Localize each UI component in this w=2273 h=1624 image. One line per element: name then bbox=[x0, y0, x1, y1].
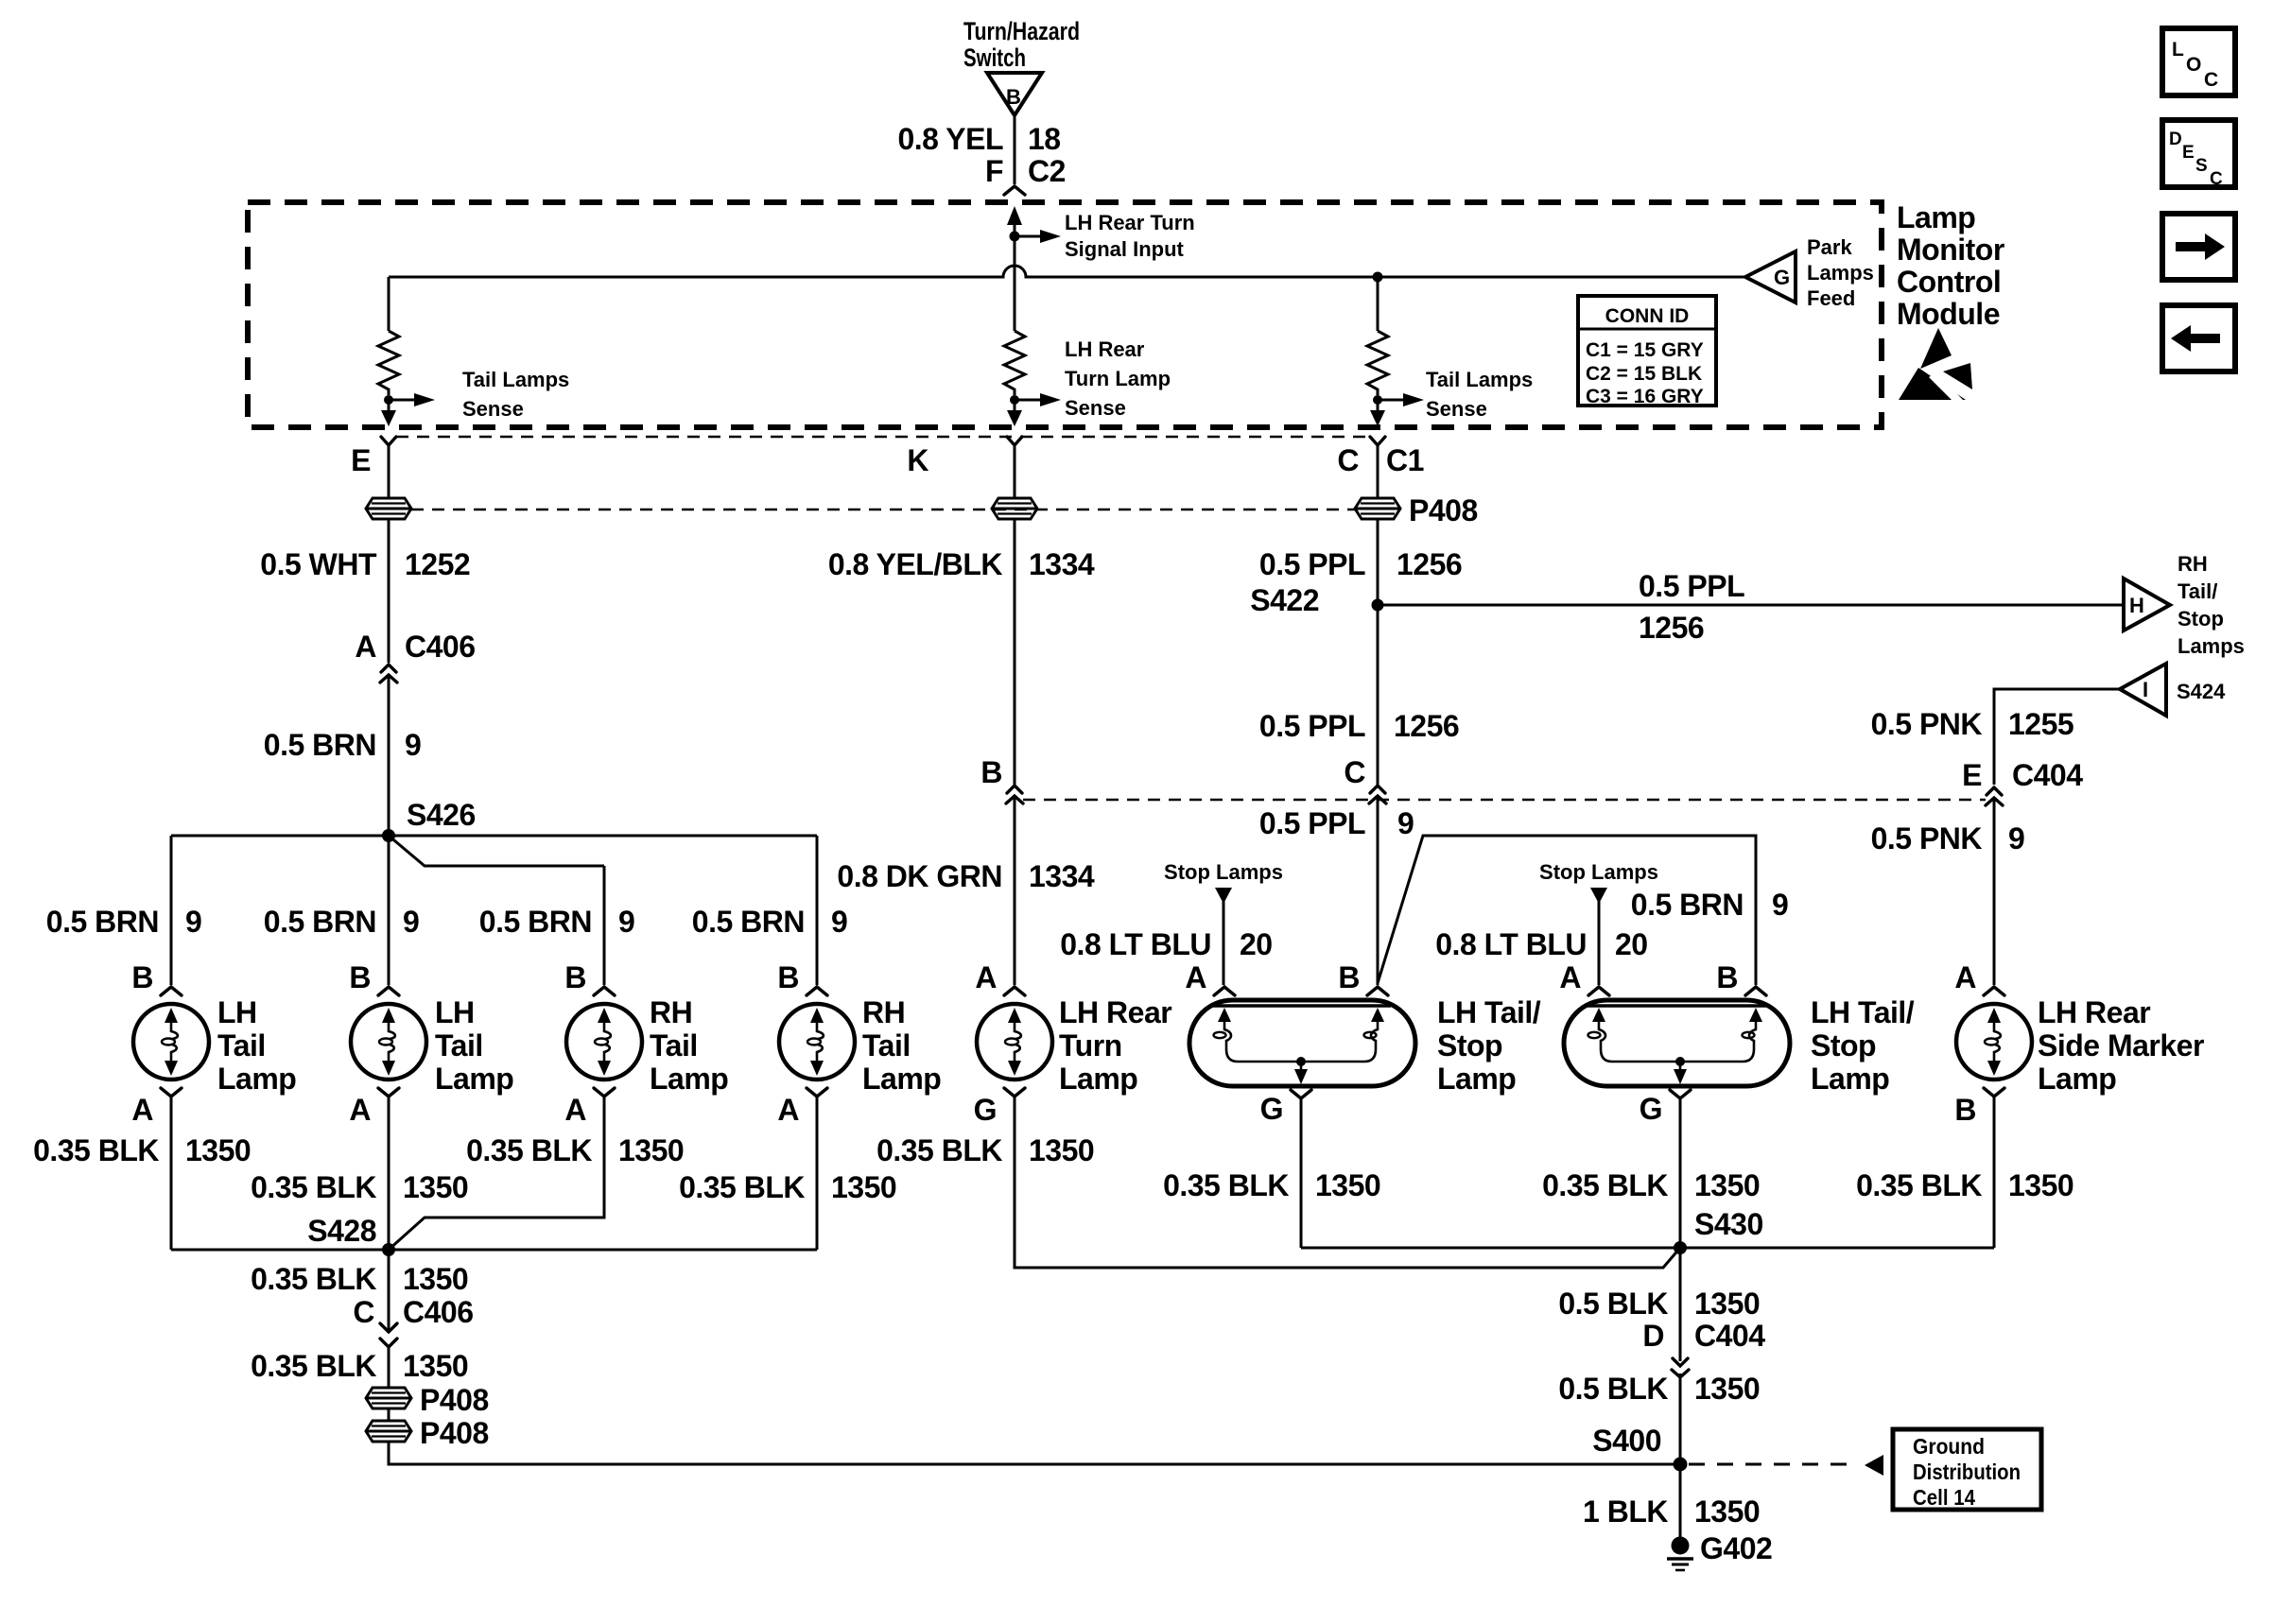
wire lamp3 A to S428 via jog bbox=[389, 1097, 604, 1250]
svg-text:E: E bbox=[2182, 143, 2195, 163]
svg-text:9: 9 bbox=[403, 905, 419, 939]
svg-text:9: 9 bbox=[618, 905, 634, 939]
svg-text:1350: 1350 bbox=[1029, 1133, 1094, 1167]
wire ground run to S400 bbox=[389, 1442, 1680, 1464]
svg-text:Tail/: Tail/ bbox=[2178, 579, 2217, 603]
wire park lamps feed horizontal with hop over K column bbox=[389, 266, 1745, 277]
svg-text:0.5 BRN: 0.5 BRN bbox=[264, 728, 376, 762]
wire LH tail/stop B to B jumper bbox=[1378, 836, 1788, 985]
svg-text:1334: 1334 bbox=[1029, 547, 1095, 581]
wire lamp2 A to S428 bbox=[388, 1097, 390, 1250]
svg-text:D: D bbox=[2169, 130, 2182, 149]
wire S430 bus bbox=[1301, 1247, 1994, 1250]
svg-text:1350: 1350 bbox=[831, 1170, 896, 1204]
wire lamp1 A to S428 bus bbox=[170, 1097, 173, 1250]
svg-text:S400: S400 bbox=[1592, 1424, 1661, 1458]
svg-text:G402: G402 bbox=[1700, 1531, 1772, 1565]
lamp LH Tail Lamp 1 bbox=[133, 995, 296, 1096]
lamp LH Tail Lamp 2 bbox=[351, 995, 513, 1096]
svg-text:Feed: Feed bbox=[1807, 286, 1855, 310]
svg-text:0.5 WHT: 0.5 WHT bbox=[260, 547, 377, 581]
connector triangle H bbox=[2124, 579, 2170, 631]
svg-text:0.5 BLK: 0.5 BLK bbox=[1558, 1372, 1668, 1406]
svg-text:Ground: Ground bbox=[1913, 1434, 1985, 1459]
svg-text:9: 9 bbox=[2008, 821, 2024, 855]
label RH Tail/Stop Lamps bbox=[2178, 552, 2245, 658]
svg-text:Lamps: Lamps bbox=[2178, 634, 2245, 658]
stop lamps feed 1 bbox=[1060, 860, 1283, 985]
svg-text:1350: 1350 bbox=[1694, 1287, 1760, 1321]
svg-text:Sense: Sense bbox=[1065, 396, 1126, 420]
svg-text:A: A bbox=[975, 960, 997, 994]
svg-text:RH: RH bbox=[2178, 552, 2208, 576]
svg-text:S: S bbox=[2195, 156, 2208, 176]
wire 0.35 BLK below S428 bbox=[251, 1250, 468, 1332]
svg-text:1350: 1350 bbox=[1694, 1168, 1760, 1202]
svg-text:C3 = 16 GRY: C3 = 16 GRY bbox=[1586, 386, 1704, 407]
pin F C2 female chevron bbox=[1004, 186, 1025, 195]
label Turn/Hazard Switch bbox=[963, 17, 1080, 72]
CONN ID table bbox=[1578, 296, 1716, 407]
thin dashed line P408 row bbox=[411, 509, 1355, 511]
node S400 bbox=[1674, 1458, 1688, 1472]
label 0.35 BLK 1350 (tail/stop 2) bbox=[1542, 1168, 1760, 1202]
svg-text:0.5 PPL: 0.5 PPL bbox=[1259, 806, 1365, 840]
svg-text:0.8 YEL: 0.8 YEL bbox=[897, 122, 1003, 156]
wire arrow down to module edge (right) bbox=[1370, 400, 1385, 426]
svg-text:0.35 BLK: 0.35 BLK bbox=[1856, 1168, 1982, 1202]
label Park Lamps Feed bbox=[1807, 235, 1874, 310]
label 0.35 BLK 1350 (turn lamp) bbox=[876, 1133, 1094, 1167]
svg-text:A: A bbox=[349, 1093, 371, 1127]
wire 0.5 PPL 1256 to RH tail/stop lamps bbox=[1378, 569, 2123, 645]
pin A/G/B labels row below lamps bbox=[131, 1092, 1976, 1127]
svg-text:S426: S426 bbox=[407, 798, 476, 832]
svg-text:Stop Lamps: Stop Lamps bbox=[1164, 860, 1283, 884]
svg-text:LH: LH bbox=[217, 995, 257, 1029]
wire arrow down to module edge (left) bbox=[381, 400, 396, 426]
svg-text:0.5 PPL: 0.5 PPL bbox=[1259, 709, 1365, 743]
node S430 bbox=[1674, 1241, 1687, 1254]
svg-text:0.35 BLK: 0.35 BLK bbox=[251, 1349, 376, 1383]
svg-text:1256: 1256 bbox=[1639, 611, 1704, 645]
svg-text:C404: C404 bbox=[2012, 758, 2083, 792]
svg-text:0.5 BRN: 0.5 BRN bbox=[479, 905, 592, 939]
pin chevrons above lamps bbox=[161, 987, 2004, 995]
icon button LOC bbox=[2162, 28, 2235, 95]
lamp RH Tail Lamp 1 bbox=[566, 995, 728, 1096]
svg-text:Sense: Sense bbox=[1426, 397, 1487, 421]
pin chevrons below lamps bbox=[161, 1088, 2004, 1098]
svg-text:E: E bbox=[351, 443, 371, 477]
icon button arrow left bbox=[2162, 305, 2235, 371]
svg-text:S424: S424 bbox=[2177, 680, 2226, 703]
svg-text:Stop: Stop bbox=[2178, 607, 2224, 631]
svg-text:Tail Lamps: Tail Lamps bbox=[462, 368, 569, 391]
svg-text:LH: LH bbox=[435, 995, 475, 1029]
connector C C406 break bbox=[353, 1295, 473, 1347]
stop lamps feed 2 bbox=[1435, 860, 1658, 985]
connector A C406 break bbox=[355, 630, 475, 682]
arrow tail lamps sense left bbox=[389, 368, 569, 421]
wire 0.5 PPL 1256 (below S422) bbox=[1259, 605, 1459, 785]
svg-text:1256: 1256 bbox=[1397, 547, 1462, 581]
wire S426 to RH tail lamp 2 B bbox=[816, 836, 819, 985]
svg-text:P408: P408 bbox=[420, 1383, 489, 1417]
svg-text:0.8 LT BLU: 0.8 LT BLU bbox=[1060, 927, 1211, 961]
inline connector P408 (bottom 1) bbox=[366, 1383, 489, 1417]
label 0.5 BRN 9 (lamp2) bbox=[264, 905, 420, 939]
svg-text:1350: 1350 bbox=[1315, 1168, 1380, 1202]
svg-text:B: B bbox=[1006, 85, 1021, 109]
wire 0.5 BLK below S430 bbox=[1558, 1248, 1760, 1361]
svg-text:S422: S422 bbox=[1250, 583, 1319, 617]
svg-text:C406: C406 bbox=[403, 1295, 474, 1329]
svg-text:E: E bbox=[1962, 758, 1982, 792]
svg-text:G: G bbox=[1774, 266, 1790, 289]
wire S426 to LH tail lamp 1 B bbox=[170, 836, 173, 985]
wire tail/stop1 G down bbox=[1300, 1098, 1303, 1248]
svg-text:0.8 DK GRN: 0.8 DK GRN bbox=[837, 859, 1002, 893]
svg-text:Lamp: Lamp bbox=[2038, 1062, 2116, 1096]
svg-text:RH: RH bbox=[862, 995, 905, 1029]
svg-text:0.5 BRN: 0.5 BRN bbox=[46, 905, 159, 939]
svg-text:0.35 BLK: 0.35 BLK bbox=[876, 1133, 1002, 1167]
ground G402 bbox=[1667, 1531, 1772, 1570]
inline connector P408 (bottom 2) bbox=[366, 1408, 489, 1450]
wire 0.35 BLK to P408 bbox=[251, 1347, 468, 1388]
svg-text:C2: C2 bbox=[1028, 154, 1066, 188]
svg-text:C: C bbox=[1337, 443, 1359, 477]
svg-text:0.35 BLK: 0.35 BLK bbox=[251, 1262, 376, 1296]
wire S426 bus bbox=[171, 835, 817, 838]
svg-text:D: D bbox=[1642, 1319, 1664, 1353]
label 0.35 BLK 1350 (lamp3) bbox=[466, 1133, 684, 1167]
connector C break (C1 column) bbox=[1344, 755, 1386, 803]
node sense junction right bbox=[1373, 395, 1382, 405]
svg-text:Cell 14: Cell 14 bbox=[1913, 1485, 1975, 1510]
svg-text:G: G bbox=[974, 1093, 997, 1127]
svg-text:0.5 PPL: 0.5 PPL bbox=[1639, 569, 1744, 603]
svg-text:F: F bbox=[985, 154, 1003, 188]
svg-text:0.8 LT BLU: 0.8 LT BLU bbox=[1435, 927, 1587, 961]
svg-text:1 BLK: 1 BLK bbox=[1583, 1494, 1668, 1529]
svg-text:20: 20 bbox=[1240, 927, 1273, 961]
svg-text:Lamp: Lamp bbox=[217, 1062, 296, 1096]
svg-text:1334: 1334 bbox=[1029, 859, 1095, 893]
svg-text:0.35 BLK: 0.35 BLK bbox=[251, 1170, 376, 1204]
wire dashed to ground distribution bbox=[1689, 1455, 1883, 1476]
svg-text:G: G bbox=[1640, 1092, 1662, 1126]
svg-text:Monitor: Monitor bbox=[1897, 233, 2004, 267]
label 0.35 BLK 1350 (side marker) bbox=[1856, 1168, 2073, 1202]
svg-text:0.5 BRN: 0.5 BRN bbox=[692, 905, 805, 939]
icon button arrow right bbox=[2162, 214, 2235, 280]
svg-text:CONN ID: CONN ID bbox=[1605, 305, 1690, 327]
svg-text:C: C bbox=[353, 1295, 374, 1329]
svg-text:P408: P408 bbox=[420, 1416, 489, 1450]
svg-text:Lamp: Lamp bbox=[862, 1062, 941, 1096]
svg-text:A: A bbox=[1185, 960, 1206, 994]
svg-text:Tail: Tail bbox=[650, 1028, 698, 1063]
node sense junction middle bbox=[1010, 395, 1019, 405]
svg-text:B: B bbox=[1338, 960, 1360, 994]
wire arrow down to module edge (middle) bbox=[1007, 400, 1022, 426]
svg-text:1350: 1350 bbox=[403, 1349, 468, 1383]
svg-text:Turn Lamp: Turn Lamp bbox=[1065, 367, 1171, 390]
svg-text:Side Marker: Side Marker bbox=[2038, 1028, 2204, 1063]
svg-text:Signal Input: Signal Input bbox=[1065, 237, 1185, 261]
svg-text:LH Rear: LH Rear bbox=[1065, 337, 1145, 361]
pin C chevron bbox=[1370, 437, 1385, 445]
svg-text:0.35 BLK: 0.35 BLK bbox=[1163, 1168, 1289, 1202]
lamp LH Rear Side Marker Lamp bbox=[1956, 995, 2204, 1096]
label 0.5 BRN 9 (lamp4) bbox=[692, 905, 848, 939]
lamp RH Tail Lamp 2 bbox=[779, 995, 941, 1096]
lamp LH Rear Turn Lamp bbox=[977, 995, 1171, 1096]
svg-text:G: G bbox=[1260, 1092, 1283, 1126]
arrow LH rear turn lamp sense bbox=[1015, 337, 1171, 420]
wire lamp4 A to S428 bus bbox=[816, 1097, 819, 1250]
svg-text:C: C bbox=[2210, 169, 2223, 189]
node S422 bbox=[1372, 599, 1384, 612]
svg-text:S428: S428 bbox=[307, 1214, 376, 1248]
svg-text:Stop Lamps: Stop Lamps bbox=[1539, 860, 1658, 884]
svg-text:B: B bbox=[1716, 960, 1738, 994]
svg-text:Lamp: Lamp bbox=[1059, 1062, 1137, 1096]
wire S426 branch to RH tail lamp 1 bbox=[389, 836, 604, 866]
svg-text:0.5 PPL: 0.5 PPL bbox=[1259, 547, 1365, 581]
svg-text:C2 = 15 BLK: C2 = 15 BLK bbox=[1586, 363, 1702, 385]
svg-text:Turn: Turn bbox=[1059, 1028, 1122, 1063]
svg-text:9: 9 bbox=[1772, 888, 1788, 922]
svg-text:1350: 1350 bbox=[618, 1133, 684, 1167]
wire 0.8 YEL 18 from triangle B to module bbox=[897, 115, 1065, 188]
svg-text:B: B bbox=[980, 755, 1002, 789]
svg-text:Tail Lamps: Tail Lamps bbox=[1426, 368, 1533, 391]
svg-text:K: K bbox=[907, 443, 928, 477]
svg-text:B: B bbox=[131, 960, 153, 994]
wire 0.5 BLK to S400 bbox=[1558, 1372, 1760, 1464]
wire bbox=[388, 445, 390, 498]
connector B break (K column) bbox=[980, 755, 1023, 803]
svg-text:Lamp: Lamp bbox=[1811, 1062, 1889, 1096]
inline connector P408 (middle) bbox=[992, 498, 1037, 519]
svg-text:1350: 1350 bbox=[2008, 1168, 2073, 1202]
connector D C404 break bbox=[1642, 1319, 1765, 1377]
svg-text:Tail: Tail bbox=[435, 1028, 483, 1063]
svg-text:9: 9 bbox=[831, 905, 847, 939]
svg-text:H: H bbox=[2129, 594, 2144, 617]
node sense junction left bbox=[384, 395, 393, 405]
svg-text:Tail: Tail bbox=[217, 1028, 266, 1063]
svg-text:Lamp: Lamp bbox=[650, 1062, 728, 1096]
svg-text:A: A bbox=[131, 1093, 153, 1127]
svg-text:B: B bbox=[777, 960, 799, 994]
svg-text:Switch: Switch bbox=[963, 43, 1026, 72]
node S428 bbox=[382, 1243, 395, 1256]
svg-text:Lamp: Lamp bbox=[1437, 1062, 1516, 1096]
label 0.35 BLK 1350 (lamp2) bbox=[251, 1170, 468, 1204]
ESD sensitive symbol bbox=[1899, 328, 1972, 400]
svg-text:1350: 1350 bbox=[403, 1262, 468, 1296]
label 0.35 BLK 1350 (tail/stop 1) bbox=[1163, 1168, 1380, 1202]
wire bbox=[1377, 445, 1379, 498]
svg-text:Stop: Stop bbox=[1437, 1028, 1502, 1063]
svg-text:C406: C406 bbox=[405, 630, 476, 664]
svg-text:RH: RH bbox=[650, 995, 692, 1029]
svg-text:Distribution: Distribution bbox=[1913, 1460, 2021, 1484]
svg-text:0.35 BLK: 0.35 BLK bbox=[1542, 1168, 1668, 1202]
wire 0.5 WHT 1252 bbox=[260, 519, 470, 663]
svg-text:20: 20 bbox=[1615, 927, 1648, 961]
svg-text:1255: 1255 bbox=[2008, 707, 2073, 741]
svg-text:C: C bbox=[2204, 69, 2218, 91]
svg-text:0.8 YEL/BLK: 0.8 YEL/BLK bbox=[828, 547, 1003, 581]
connector C1 chevron below module (E) bbox=[381, 437, 396, 445]
svg-text:0.5 BRN: 0.5 BRN bbox=[264, 905, 376, 939]
thin dashed connector line C1 bbox=[396, 436, 1370, 439]
inline connector P408 (right) bbox=[1355, 498, 1400, 519]
svg-text:B: B bbox=[564, 960, 586, 994]
svg-text:S430: S430 bbox=[1694, 1207, 1763, 1241]
wire K column vertical inside module bbox=[1014, 236, 1016, 331]
icon button DESC bbox=[2162, 120, 2235, 189]
svg-text:Turn/Hazard: Turn/Hazard bbox=[963, 17, 1080, 45]
svg-text:C1 = 15 GRY: C1 = 15 GRY bbox=[1586, 339, 1704, 361]
svg-text:1256: 1256 bbox=[1394, 709, 1459, 743]
wire 0.5 PPL 1256 (above S422) bbox=[1259, 519, 1462, 605]
resistor tail lamps sense (left) bbox=[378, 277, 399, 395]
svg-text:Park: Park bbox=[1807, 235, 1852, 259]
svg-text:Lamps: Lamps bbox=[1807, 261, 1874, 285]
svg-text:Module: Module bbox=[1897, 297, 2000, 331]
wire S426 to LH tail lamp 2 B bbox=[388, 836, 390, 985]
wire turn lamp G to S430 bbox=[1015, 1097, 1680, 1268]
svg-text:1350: 1350 bbox=[403, 1170, 468, 1204]
svg-text:A: A bbox=[355, 630, 376, 664]
connector E C404 break bbox=[1962, 758, 2083, 805]
svg-text:C404: C404 bbox=[1694, 1319, 1765, 1353]
svg-text:A: A bbox=[1559, 960, 1581, 994]
connector triangle I S424 bbox=[2120, 664, 2226, 716]
svg-text:LH Rear Turn: LH Rear Turn bbox=[1065, 211, 1195, 234]
wire 0.8 YEL/BLK 1334 bbox=[828, 519, 1095, 785]
wire 0.5 PNK 1255 from S424 bbox=[1871, 689, 2120, 785]
pin K chevron bbox=[1007, 437, 1022, 445]
svg-text:Lamp: Lamp bbox=[435, 1062, 513, 1096]
node junction feed to C1 column bbox=[1373, 272, 1383, 283]
svg-text:0.35 BLK: 0.35 BLK bbox=[466, 1133, 592, 1167]
label 0.5 BRN 9 (lamp3) bbox=[479, 905, 635, 939]
wire bbox=[1014, 445, 1016, 498]
svg-text:1350: 1350 bbox=[1694, 1372, 1760, 1406]
svg-text:A: A bbox=[1954, 960, 1976, 994]
label 0.35 BLK 1350 (lamp4) bbox=[679, 1170, 896, 1204]
svg-text:A: A bbox=[777, 1093, 799, 1127]
label Lamp Monitor Control Module bbox=[1897, 200, 2004, 331]
wire 0.5 PNK 9 to side marker bbox=[1871, 798, 2025, 985]
svg-text:B: B bbox=[349, 960, 371, 994]
lamp LH Tail/Stop Lamp 1 bbox=[1189, 995, 1541, 1096]
wire tail/stop2 G down bbox=[1679, 1098, 1682, 1248]
node junction on K column bbox=[1010, 232, 1020, 242]
arrow tail lamps sense right bbox=[1378, 368, 1533, 421]
arrow LH Rear Turn Signal Input bbox=[1015, 211, 1195, 261]
label 0.35 BLK 1350 (lamp1) bbox=[33, 1133, 251, 1167]
svg-text:LH Rear: LH Rear bbox=[2038, 995, 2150, 1029]
wire 0.5 BRN 9 to S426 bbox=[264, 675, 422, 836]
svg-text:0.5 PNK: 0.5 PNK bbox=[1871, 707, 1983, 741]
svg-text:Lamp: Lamp bbox=[1897, 200, 1975, 234]
label 0.5 BRN 9 (lamp1) bbox=[46, 905, 202, 939]
wire 0.5 PPL 9 to LH tail/stop lamp B bbox=[1259, 796, 1414, 985]
wire 0.8 DK GRN 1334 bbox=[837, 796, 1094, 985]
pin B labels row bbox=[131, 960, 1976, 994]
svg-text:LH Tail/: LH Tail/ bbox=[1811, 995, 1915, 1029]
Lamp Monitor Control Module dashed box bbox=[248, 202, 1882, 427]
svg-text:Tail: Tail bbox=[862, 1028, 911, 1063]
svg-text:Control: Control bbox=[1897, 265, 2001, 299]
connector triangle B (Turn/Hazard Switch) bbox=[987, 73, 1042, 115]
box Ground Distribution Cell 14 bbox=[1893, 1429, 2041, 1510]
connector triangle G park lamps feed bbox=[1745, 251, 1796, 302]
svg-text:18: 18 bbox=[1028, 122, 1061, 156]
wire 1 BLK 1350 to ground bbox=[1583, 1464, 1760, 1537]
svg-text:LH Rear: LH Rear bbox=[1059, 995, 1171, 1029]
svg-text:P408: P408 bbox=[1409, 493, 1478, 527]
svg-text:1252: 1252 bbox=[405, 547, 470, 581]
svg-text:Sense: Sense bbox=[462, 397, 524, 421]
svg-text:A: A bbox=[564, 1093, 586, 1127]
svg-text:9: 9 bbox=[185, 905, 201, 939]
svg-text:0.5 BLK: 0.5 BLK bbox=[1558, 1287, 1668, 1321]
wire arrow up into module (LH rear turn input) bbox=[1007, 206, 1022, 236]
svg-text:I: I bbox=[2143, 678, 2148, 701]
wire branch to RH tail lamp 1 B bbox=[603, 866, 606, 985]
svg-text:1350: 1350 bbox=[1694, 1494, 1760, 1529]
node S426 bbox=[382, 829, 395, 842]
svg-text:LH Tail/: LH Tail/ bbox=[1437, 995, 1541, 1029]
svg-text:9: 9 bbox=[405, 728, 421, 762]
lamp LH Tail/Stop Lamp 2 bbox=[1564, 995, 1915, 1096]
wire S428 bus bbox=[171, 1249, 817, 1252]
inline connector P408 (left) bbox=[366, 498, 411, 519]
svg-text:0.5 BRN: 0.5 BRN bbox=[1631, 888, 1744, 922]
svg-text:B: B bbox=[1954, 1093, 1976, 1127]
svg-text:C: C bbox=[1344, 755, 1365, 789]
wire side marker B down bbox=[1993, 1097, 1996, 1248]
svg-text:1350: 1350 bbox=[185, 1133, 251, 1167]
resistor tail lamps sense (right) bbox=[1367, 277, 1388, 395]
svg-text:0.5 PNK: 0.5 PNK bbox=[1871, 821, 1983, 855]
svg-text:O: O bbox=[2186, 54, 2201, 76]
resistor LH rear turn lamp sense (middle) bbox=[1004, 331, 1025, 395]
svg-text:Stop: Stop bbox=[1811, 1028, 1876, 1063]
svg-text:C1: C1 bbox=[1386, 443, 1424, 477]
svg-text:0.35 BLK: 0.35 BLK bbox=[33, 1133, 159, 1167]
svg-text:0.35 BLK: 0.35 BLK bbox=[679, 1170, 805, 1204]
svg-text:L: L bbox=[2172, 39, 2184, 60]
svg-text:9: 9 bbox=[1397, 806, 1414, 840]
thin dashed line C404 row bbox=[1023, 799, 1986, 802]
